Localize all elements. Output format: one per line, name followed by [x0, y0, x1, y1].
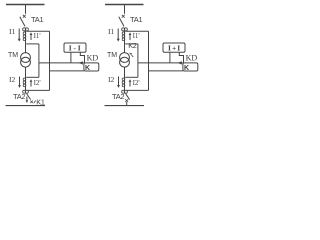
bus bottom-left [6, 105, 46, 107]
wire TA2 top lead [26, 76, 39, 78]
current transformer TA1 [23, 28, 29, 31]
wire vertical outer [49, 31, 51, 90]
wire relay bottom right [149, 70, 183, 72]
arrow relay current left [79, 61, 83, 64]
svg-text:I1': I1' [133, 32, 140, 40]
wire vertical outer right [148, 31, 150, 90]
svg-text:I2': I2' [133, 79, 140, 87]
svg-text:I+I: I+I [168, 44, 181, 53]
measuring box I-I [64, 43, 86, 52]
svg-text:I1: I1 [108, 27, 115, 36]
svg-text:KD: KD [186, 53, 198, 62]
svg-text:I2: I2 [9, 75, 16, 84]
wire stub to bus right [126, 102, 128, 106]
arrow I2' up right [129, 79, 132, 86]
svg-text:I1: I1 [9, 27, 16, 36]
TA2 secondary winding right [122, 78, 125, 87]
current transformer TA1 right [122, 28, 128, 31]
svg-text:KD: KD [87, 53, 99, 62]
wire relay top right [138, 62, 183, 64]
svg-text:TM: TM [8, 52, 18, 59]
arrow to fault K2 [131, 55, 133, 57]
svg-text:I1': I1' [34, 32, 41, 40]
TA1 secondary winding right [122, 32, 125, 41]
svg-text:I2: I2 [108, 75, 115, 84]
bus bottom-right [105, 105, 145, 107]
switch blade bottom [27, 94, 31, 100]
svg-text:I-I: I-I [69, 44, 83, 53]
TA1 secondary winding [23, 32, 26, 41]
wire TA2 top lead right [125, 76, 138, 78]
wire drop from bus [25, 5, 27, 14]
arrow I2 down [18, 77, 21, 88]
wire TA1 bottom lead [26, 43, 39, 45]
arrow to fault K1 [35, 101, 36, 103]
breaker contact x bottom [30, 101, 32, 103]
relay leg left [70, 52, 72, 63]
switch blade [20, 17, 25, 27]
measuring box I+I [163, 43, 185, 52]
arrow fault current down [26, 97, 29, 103]
primary conductor lower [25, 67, 27, 90]
relay leg right with jog right [179, 52, 183, 63]
relay coil KD [84, 63, 99, 71]
svg-text:I2': I2' [34, 79, 41, 87]
wire TA1 top lead right [125, 30, 148, 32]
bus top-right [105, 4, 144, 6]
TA2 secondary winding [23, 78, 26, 87]
arrow I2 down right [117, 77, 120, 88]
wire drop from bus [124, 5, 126, 14]
switch blade [119, 17, 124, 27]
relay coil KD right [183, 63, 198, 71]
breaker contact x bottom right [125, 99, 128, 102]
primary conductor upper [25, 31, 27, 53]
arrow I1' up right [129, 32, 132, 40]
breaker contact x Q1 [23, 15, 26, 18]
wire TA1 bottom lead right [125, 43, 138, 45]
current transformer TA2 [23, 90, 29, 93]
switch blade bottom right [126, 94, 130, 100]
breaker contact x [122, 15, 125, 18]
wire relay top [39, 62, 84, 64]
transformer TM right [120, 53, 130, 68]
svg-text:TA1: TA1 [130, 15, 143, 24]
relay leg left right [169, 52, 171, 63]
arrow I1 down [18, 29, 21, 42]
current transformer TA2 right [122, 90, 128, 93]
arrow I1 down right [117, 29, 120, 42]
relay leg right with jog [80, 52, 84, 63]
wire vertical inner right [137, 44, 139, 77]
primary conductor lower right [124, 67, 126, 90]
svg-text:K: K [85, 65, 90, 72]
arrow relay current left right [178, 61, 182, 64]
svg-text:TA2: TA2 [13, 92, 25, 101]
bus top-left [6, 4, 45, 6]
wire TA2 bottom lead right [127, 89, 149, 91]
wire TA2 bottom lead [28, 89, 50, 91]
wire vertical inner [38, 44, 40, 77]
svg-text:TA1: TA1 [31, 15, 44, 24]
primary conductor upper right [124, 31, 126, 53]
transformer TM [21, 53, 31, 68]
arrow I2' up [30, 79, 33, 86]
wire relay bottom [50, 70, 84, 72]
svg-text:K2: K2 [128, 41, 137, 50]
svg-text:TA2: TA2 [112, 92, 124, 101]
arrow I1' up [30, 32, 33, 40]
wire TA1 top lead [26, 30, 49, 32]
svg-text:TM: TM [107, 52, 117, 59]
svg-text:K: K [184, 65, 189, 72]
